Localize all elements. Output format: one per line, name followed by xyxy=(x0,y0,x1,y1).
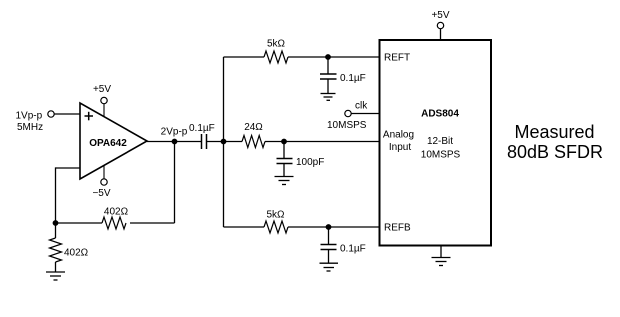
svg-text:5kΩ: 5kΩ xyxy=(267,39,286,50)
ground below REFT bypass xyxy=(321,94,336,101)
wire left riser to feedback node xyxy=(55,167,57,223)
svg-text:24Ω: 24Ω xyxy=(244,122,263,133)
capacitor 0.1uF series xyxy=(189,123,215,149)
node 100pF junction xyxy=(281,139,287,145)
svg-text:12-Bit: 12-Bit xyxy=(427,136,453,147)
wire top rail right segment to REFT xyxy=(288,56,380,58)
wire clk to ADC xyxy=(351,113,379,115)
svg-text:−5V: −5V xyxy=(92,188,110,199)
capacitor 100pF to ground xyxy=(277,142,325,177)
annotation measured SFDR xyxy=(507,122,603,162)
+5V supply pin of op-amp xyxy=(93,84,111,117)
resistor 402 ohm feedback xyxy=(102,207,129,230)
resistor 24 ohm xyxy=(242,122,265,148)
svg-text:Input: Input xyxy=(389,142,411,153)
resistor 402 ohm to ground xyxy=(50,223,89,272)
ground below REFB bypass xyxy=(320,263,339,271)
ground pin of ADC xyxy=(432,246,451,266)
wire op-amp output xyxy=(147,141,202,143)
node REFT junction xyxy=(325,54,331,60)
svg-text:0.1µF: 0.1µF xyxy=(340,73,366,84)
svg-text:Analog: Analog xyxy=(383,130,414,141)
svg-text:Measured: Measured xyxy=(514,122,594,142)
svg-text:+5V: +5V xyxy=(93,84,111,95)
ADC U2 ADS804 xyxy=(380,40,492,246)
svg-text:10MSPS: 10MSPS xyxy=(327,120,367,131)
svg-text:1Vp-p: 1Vp-p xyxy=(16,111,43,122)
clk input terminal xyxy=(327,101,368,132)
wire feedback riser to output xyxy=(174,142,176,224)
svg-text:100pF: 100pF xyxy=(296,157,324,168)
svg-text:2Vp-p: 2Vp-p xyxy=(161,127,188,138)
wire inverting input xyxy=(56,167,81,169)
svg-text:80dB SFDR: 80dB SFDR xyxy=(507,142,603,162)
resistor 5k ohm bottom xyxy=(264,210,288,234)
wire bottom rail left segment xyxy=(224,226,265,228)
capacitor 0.1uF REFB bypass xyxy=(321,227,366,263)
node riser junction xyxy=(221,139,227,145)
wire cap to 24 ohm xyxy=(207,141,243,143)
op-amp U1 OPA642 xyxy=(80,103,147,179)
wire bottom rail right segment to REFB xyxy=(288,226,380,228)
svg-text:REFT: REFT xyxy=(384,53,410,64)
node REFB junction xyxy=(326,224,332,230)
input terminal (1Vp-p 5MHz source) xyxy=(16,111,55,134)
svg-text:0.1µF: 0.1µF xyxy=(189,123,215,134)
node output junction xyxy=(161,127,188,145)
+5V supply pin of ADC xyxy=(431,10,449,40)
svg-text:402Ω: 402Ω xyxy=(64,248,89,259)
svg-text:clk: clk xyxy=(355,101,368,112)
svg-text:ADS804: ADS804 xyxy=(421,109,459,120)
wire feedback right segment xyxy=(130,222,175,224)
ground below 402 ohm xyxy=(46,272,65,280)
svg-text:5kΩ: 5kΩ xyxy=(266,210,285,221)
ground below 100pF xyxy=(275,177,294,185)
wire feedback left segment xyxy=(56,222,103,224)
wire 24 ohm to ADC analog input xyxy=(265,141,380,143)
svg-text:OPA642: OPA642 xyxy=(89,138,127,149)
resistor 5k ohm top xyxy=(264,39,288,64)
node feedback junction xyxy=(53,220,59,226)
-5V supply pin of op-amp xyxy=(92,165,110,199)
wire top rail left segment xyxy=(224,56,265,58)
svg-text:5MHz: 5MHz xyxy=(17,122,43,133)
svg-text:+5V: +5V xyxy=(431,10,449,21)
capacitor 0.1uF REFT bypass xyxy=(320,57,366,94)
svg-text:0.1µF: 0.1µF xyxy=(340,244,366,255)
svg-text:REFB: REFB xyxy=(384,223,411,234)
svg-text:10MSPS: 10MSPS xyxy=(421,149,461,160)
wire vertical riser to reference rails xyxy=(223,57,225,227)
svg-text:402Ω: 402Ω xyxy=(104,207,129,218)
wire input to op-amp + input xyxy=(54,113,80,115)
